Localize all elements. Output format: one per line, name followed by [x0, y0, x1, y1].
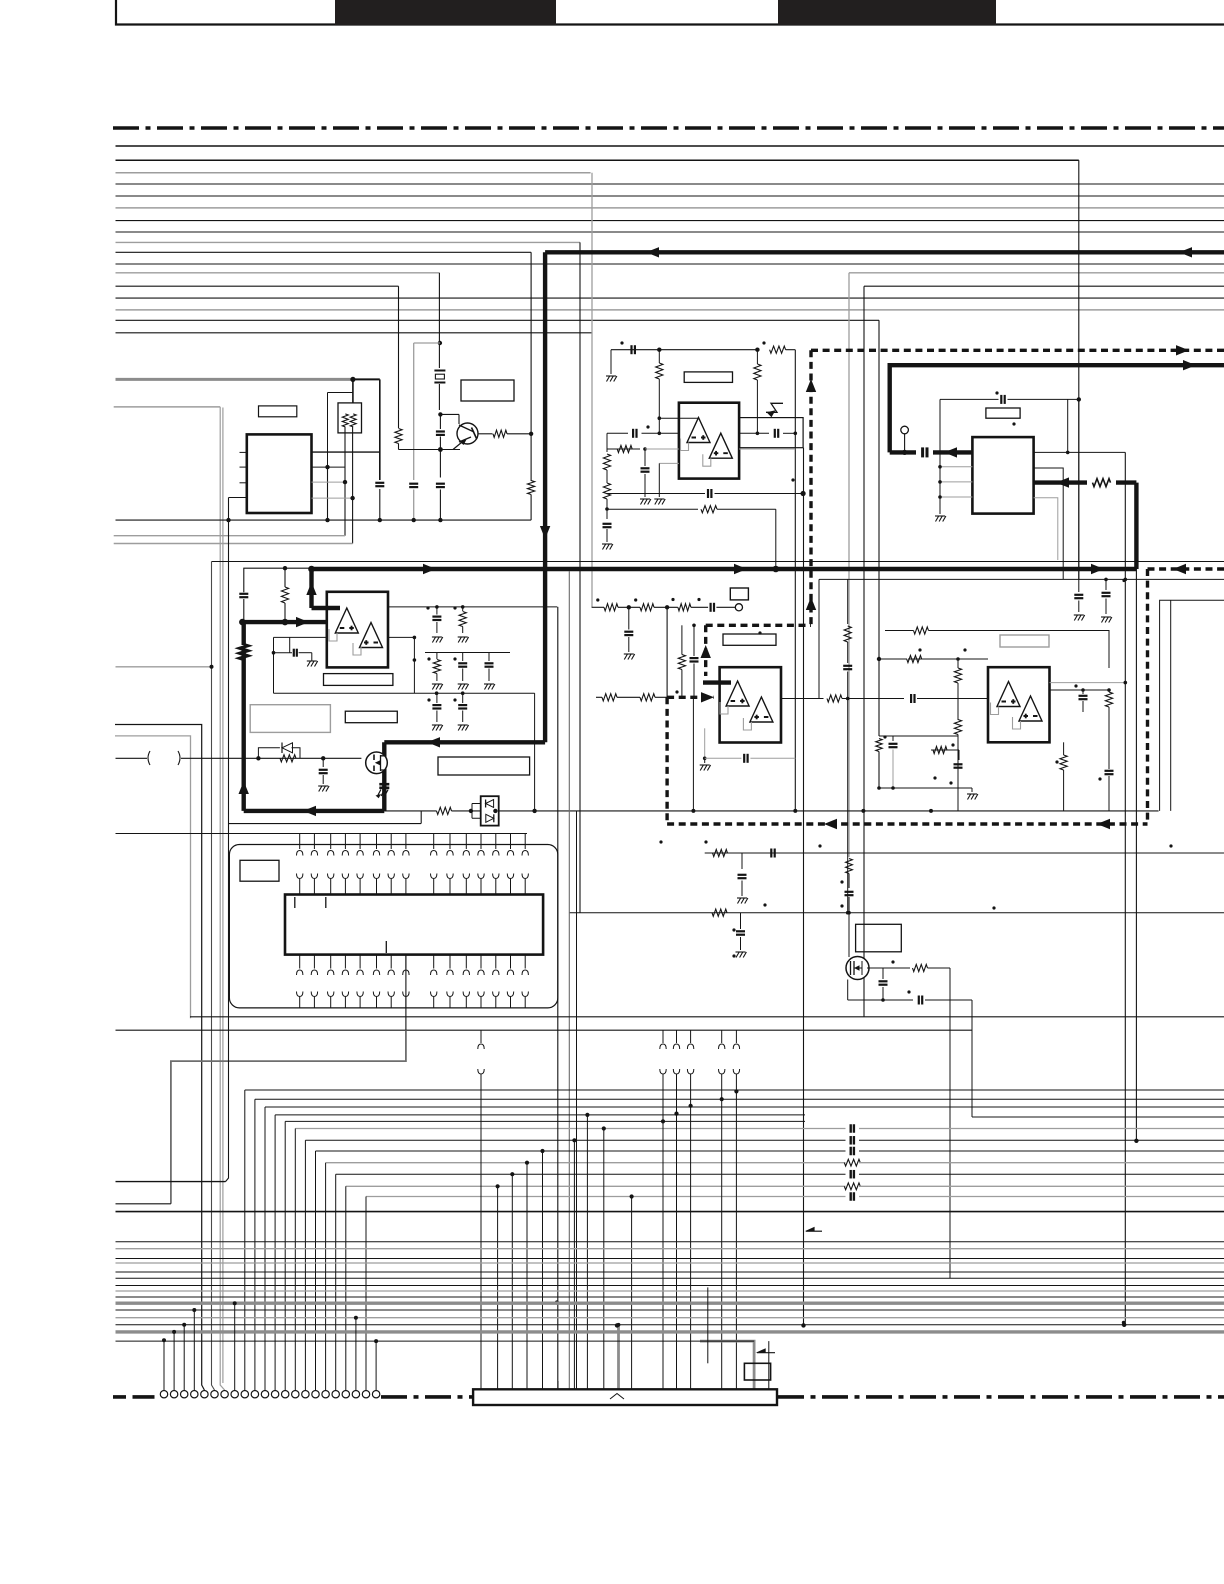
thick wire IC2 top loop	[890, 365, 1224, 452]
wire	[863, 286, 865, 1017]
capacitor thick	[379, 783, 389, 786]
thick riser	[1134, 483, 1138, 569]
marker dot	[1074, 684, 1077, 687]
thick junction	[239, 619, 246, 626]
pin stub	[524, 834, 526, 850]
wire	[659, 417, 698, 419]
U1 left pin 4	[229, 497, 247, 499]
arrow	[1176, 345, 1189, 355]
pin stub lower	[433, 955, 435, 969]
wire	[645, 448, 679, 450]
thick signal wire	[382, 742, 386, 811]
wire gray	[848, 273, 850, 857]
wire rail	[116, 1029, 973, 1031]
capacitor	[436, 430, 445, 432]
U1 right pin wire	[312, 497, 353, 499]
arrow	[646, 247, 659, 257]
wire	[576, 811, 578, 1389]
wire	[353, 378, 380, 380]
arrow	[806, 379, 816, 392]
wire	[904, 434, 906, 452]
U2 right pin wire	[1034, 498, 1058, 560]
wire	[972, 1116, 1224, 1118]
junction	[226, 518, 230, 522]
wire bus	[116, 297, 1224, 299]
resistor	[770, 346, 786, 353]
wire	[847, 699, 849, 913]
wire	[344, 427, 346, 536]
wire bus	[116, 309, 1224, 311]
capacitor	[1105, 579, 1107, 590]
junction	[438, 447, 443, 452]
wire drop	[284, 1121, 286, 1390]
terminal	[735, 604, 742, 611]
junction	[1081, 688, 1085, 692]
wire drop	[586, 1115, 588, 1389]
pin stub	[359, 834, 361, 850]
U1 right pin wire	[312, 451, 380, 453]
op-amp U5a	[726, 681, 749, 706]
wire gray	[220, 407, 224, 1390]
capacitor	[1078, 579, 1080, 592]
wire	[425, 652, 510, 654]
wire bus	[116, 207, 1224, 209]
ground	[432, 637, 435, 643]
junction	[413, 636, 417, 640]
wire rail fan	[316, 1150, 846, 1152]
wire stub	[173, 1332, 175, 1390]
resistor	[658, 350, 660, 363]
junction	[938, 495, 942, 499]
wire bus	[116, 183, 1224, 185]
wire stub	[183, 1325, 185, 1390]
wire rail fan	[336, 1173, 846, 1175]
wire drop	[335, 1174, 337, 1390]
wire drop	[264, 1107, 266, 1391]
op-amp U4a	[687, 418, 710, 443]
wire	[691, 606, 708, 608]
junction	[846, 697, 850, 701]
U2 left pin	[940, 496, 972, 498]
wire	[739, 432, 769, 434]
dashed riser	[1146, 569, 1149, 824]
wire	[659, 493, 705, 495]
pin stub lower	[299, 955, 301, 969]
pin stub lower	[465, 955, 467, 969]
junction	[162, 1338, 166, 1342]
wire	[458, 414, 460, 424]
capacitor	[462, 693, 464, 703]
resistor	[280, 755, 296, 762]
capacitor	[436, 693, 438, 703]
thick bus wire	[312, 567, 1137, 571]
wire	[478, 433, 493, 435]
resistor	[713, 849, 728, 856]
junction	[192, 1308, 196, 1312]
wire	[1170, 600, 1172, 811]
ground	[1074, 615, 1077, 621]
wire	[452, 810, 481, 812]
junction	[674, 1112, 678, 1116]
junction	[794, 432, 798, 436]
resistor	[606, 470, 608, 483]
resistor	[1093, 479, 1111, 487]
resistor	[957, 659, 959, 668]
ground	[432, 725, 435, 731]
wire	[388, 636, 414, 638]
wire	[116, 757, 148, 759]
resonator X1	[434, 371, 445, 383]
resistor	[437, 807, 452, 814]
pin mark	[294, 897, 296, 908]
connector pin 20	[352, 1391, 359, 1398]
arrow	[806, 597, 816, 610]
junction	[793, 809, 797, 813]
capacitor	[921, 447, 924, 457]
ground	[311, 653, 313, 661]
wire	[1135, 569, 1137, 1141]
marker dot	[732, 954, 735, 957]
wire gray	[413, 343, 415, 480]
U2 left pin	[940, 481, 972, 483]
wire stub	[375, 1341, 377, 1390]
pin stub lower	[344, 955, 346, 969]
wire	[244, 568, 312, 592]
connector pin 9	[241, 1391, 248, 1398]
wire	[786, 349, 796, 351]
resistor	[342, 414, 348, 427]
junction	[846, 911, 850, 915]
U1 right pin wire	[312, 466, 346, 468]
wire	[226, 498, 229, 1182]
wire	[607, 493, 659, 495]
marker dot	[1122, 579, 1125, 582]
pin stub	[449, 834, 451, 850]
pin stub lower	[313, 955, 315, 969]
junction	[891, 786, 895, 790]
wire	[388, 606, 557, 608]
marker dot	[646, 425, 649, 428]
wire stub	[234, 1303, 236, 1390]
capacitor	[709, 603, 711, 612]
board boundary dash-dot top	[113, 126, 1224, 130]
IC U7 DAC	[285, 895, 543, 955]
thick junction	[308, 566, 315, 573]
junction	[734, 1089, 738, 1093]
wire	[398, 286, 400, 428]
wire drop gray	[617, 1325, 620, 1389]
wire	[413, 637, 415, 693]
capacitor	[693, 625, 695, 656]
junction	[658, 416, 662, 420]
marker dot	[763, 903, 766, 906]
wire drop	[244, 1090, 246, 1391]
wire bus bottom	[116, 1324, 1224, 1326]
op-amp block U6	[988, 667, 1050, 742]
wire	[781, 698, 824, 700]
wire	[534, 693, 536, 811]
junction	[689, 1104, 693, 1108]
junction	[283, 566, 287, 570]
capacitor	[630, 345, 632, 354]
wire drop	[325, 1163, 327, 1391]
wire	[274, 636, 327, 638]
pin stub	[510, 834, 512, 850]
wire	[507, 433, 531, 435]
wire	[1078, 399, 1080, 579]
wire gray	[114, 406, 221, 408]
op-amp block U3	[327, 592, 388, 668]
label box	[259, 406, 297, 417]
wire gray rail	[114, 543, 353, 545]
wire	[681, 625, 683, 654]
wire	[579, 242, 581, 913]
arrow	[734, 564, 747, 574]
thick wire to IC2	[1034, 480, 1087, 484]
capacitor	[632, 429, 634, 438]
capacitor	[375, 482, 384, 484]
connector pin 5	[201, 1391, 208, 1398]
wire drop	[365, 1197, 367, 1391]
thick resistor	[240, 645, 248, 660]
wire rail	[116, 519, 532, 521]
wire drop	[497, 1186, 499, 1389]
wire drop	[294, 1129, 296, 1391]
marker dot	[907, 990, 910, 993]
wire gray	[739, 448, 795, 450]
wire bus	[116, 172, 591, 174]
wire	[439, 414, 441, 429]
junction	[510, 1172, 514, 1176]
connector pin 4	[191, 1391, 198, 1398]
ground	[641, 499, 644, 505]
wire	[243, 599, 245, 620]
wire gray feedback	[720, 702, 728, 714]
wire	[617, 696, 640, 698]
thick stub	[312, 606, 341, 610]
capacitor	[436, 607, 438, 615]
capacitor	[322, 758, 324, 767]
wire gray feedback	[991, 703, 999, 715]
inter-sheet link	[690, 1030, 692, 1043]
wire	[379, 379, 381, 480]
junction	[325, 465, 329, 469]
ground	[319, 786, 322, 792]
thick stub	[309, 569, 313, 608]
marker dot	[1169, 844, 1172, 847]
junction	[343, 480, 347, 484]
capacitor	[628, 607, 630, 629]
wire	[848, 913, 850, 957]
label box	[856, 924, 902, 952]
wire gray	[704, 728, 706, 758]
junction	[525, 1161, 529, 1165]
wire bus	[116, 220, 1224, 222]
marker dot	[963, 648, 966, 651]
wire	[606, 529, 608, 542]
ground	[936, 516, 939, 522]
terminal	[901, 426, 909, 434]
wire	[928, 967, 951, 969]
wire	[568, 571, 570, 1389]
junction	[956, 657, 960, 661]
junction	[643, 447, 647, 451]
header black bar 1	[335, 0, 556, 25]
junction	[877, 657, 881, 661]
marker dot	[840, 880, 843, 883]
thick wire	[890, 450, 916, 454]
wire rail fan	[305, 1139, 845, 1141]
wire	[606, 433, 608, 452]
wire rail	[116, 833, 528, 835]
resistor	[602, 694, 617, 701]
U1 left pin 2	[240, 466, 247, 468]
pin stub	[313, 834, 315, 850]
wire bus	[116, 159, 1079, 161]
op-amp block U4	[679, 403, 739, 479]
dashed wire	[667, 696, 714, 699]
junction	[555, 1300, 559, 1304]
dashed wire	[665, 697, 668, 824]
capacitor	[409, 483, 418, 485]
capacitor	[954, 763, 963, 765]
junction	[627, 605, 631, 609]
junction	[703, 757, 707, 761]
wire	[530, 252, 532, 433]
wire bus bottom	[116, 1330, 1224, 1333]
wire	[717, 508, 776, 510]
junction	[540, 1149, 544, 1153]
wire	[607, 508, 698, 510]
MOSFET Q3	[846, 957, 869, 980]
ground	[655, 499, 658, 505]
wire bus bottom	[116, 1285, 1224, 1287]
ground	[704, 758, 706, 763]
marker dot	[671, 598, 674, 601]
capacitor	[488, 653, 490, 662]
wire bus bottom	[116, 1258, 1224, 1260]
marker dot	[949, 781, 952, 784]
marker dot	[762, 341, 765, 344]
wire	[940, 398, 999, 400]
junction	[657, 348, 661, 352]
resistor	[1060, 755, 1067, 770]
label box	[324, 674, 393, 686]
junction	[615, 1323, 619, 1327]
arrow	[540, 526, 550, 539]
wire bus bottom	[116, 1277, 1224, 1279]
wire drop	[768, 1341, 770, 1389]
junction	[532, 809, 536, 813]
marker dot	[427, 657, 430, 660]
pin stub lower	[330, 955, 332, 969]
resistor	[701, 506, 717, 513]
wire	[958, 750, 960, 760]
wire	[116, 1203, 171, 1205]
junction	[272, 651, 276, 655]
junction	[801, 1323, 805, 1327]
label box	[240, 860, 279, 881]
resistor	[604, 604, 618, 611]
arrow	[1097, 819, 1110, 829]
capacitor	[740, 913, 742, 929]
wire bus bottom	[116, 1241, 1224, 1243]
dual diode D2	[481, 796, 499, 825]
wire rail	[190, 1016, 1224, 1018]
ground	[458, 684, 461, 690]
label box	[461, 380, 514, 401]
marker dot	[951, 743, 954, 746]
wire	[1067, 399, 1069, 452]
resistor	[603, 454, 610, 470]
wire drop	[345, 1186, 347, 1390]
wire	[879, 735, 958, 737]
wire rail fan	[265, 1106, 1224, 1108]
junction	[755, 348, 759, 352]
flag symbol	[766, 403, 783, 412]
wire gray	[414, 342, 440, 344]
wire gray corner	[1160, 600, 1224, 811]
capacitor	[603, 523, 612, 525]
junction	[1134, 1139, 1138, 1143]
pin stub lower	[405, 955, 407, 969]
marker dot	[453, 657, 456, 660]
wire	[327, 467, 329, 520]
junction	[496, 1184, 500, 1188]
wire drop	[254, 1099, 256, 1390]
wire rail	[705, 852, 1224, 854]
connector pin 10	[251, 1391, 258, 1398]
op-amp U3a	[335, 608, 358, 633]
thick signal wire	[545, 250, 1224, 254]
inter-sheet link	[480, 1030, 482, 1043]
junction	[438, 518, 442, 522]
junction	[605, 507, 609, 511]
capacitor	[436, 483, 445, 485]
wire bus	[116, 145, 1224, 147]
wire bus	[116, 285, 399, 287]
resistor	[678, 655, 685, 670]
arrow	[944, 447, 957, 457]
resistor	[530, 434, 532, 481]
marker dot	[596, 598, 599, 601]
wire rail fan	[275, 1114, 805, 1116]
wire	[405, 955, 407, 1031]
junction	[881, 998, 885, 1002]
dashed bus wire	[811, 349, 1224, 352]
wire drop gray	[700, 1341, 754, 1389]
wire	[692, 697, 694, 811]
wire drop	[511, 1174, 513, 1389]
pin stub	[480, 834, 482, 850]
module outline	[229, 845, 557, 1008]
wire	[783, 432, 795, 434]
junction	[630, 1194, 634, 1198]
arrow	[1183, 360, 1196, 370]
wire bus	[116, 195, 1224, 197]
wire bus bottom	[116, 1309, 1224, 1311]
wire gray rail	[114, 535, 345, 537]
wire drop	[304, 1140, 306, 1390]
wire	[212, 561, 1224, 563]
junction	[617, 1323, 621, 1327]
junction	[350, 496, 354, 500]
pin stub	[299, 834, 301, 850]
wire bus bottom	[116, 1248, 1224, 1250]
wire gray	[750, 757, 795, 759]
arrow	[824, 819, 837, 829]
ground	[458, 725, 461, 731]
